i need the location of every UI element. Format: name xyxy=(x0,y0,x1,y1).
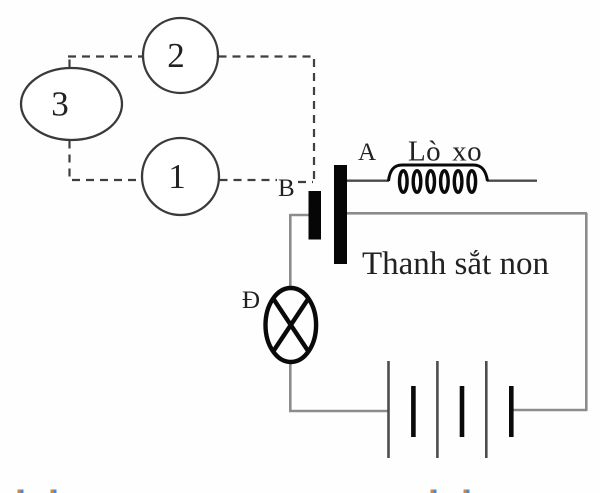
lamp D (circle with cross) xyxy=(266,288,317,362)
wire spring free end xyxy=(487,179,537,181)
cropped text fragment bottom-right 1 xyxy=(431,490,437,493)
dashed leader from circle 1 to node B xyxy=(220,180,314,182)
battery cell 2 long plate xyxy=(436,361,439,458)
svg-text:Thanh sắt non: Thanh sắt non xyxy=(362,246,549,282)
svg-text:B: B xyxy=(278,175,295,202)
svg-text:3: 3 xyxy=(51,85,69,124)
battery cell 1 long plate xyxy=(387,361,390,458)
svg-text:1: 1 xyxy=(168,157,186,196)
wire from contact bar B to lamp branch xyxy=(290,214,309,217)
battery cell 3 long plate xyxy=(485,361,488,458)
cropped text fragment bottom-left 1 xyxy=(18,490,24,493)
dashed leader from ellipse 3 to circle 2 xyxy=(68,56,142,68)
svg-text:Lò xo: Lò xo xyxy=(408,136,482,168)
battery cell 1 short plate xyxy=(411,386,416,437)
battery cell 3 short plate xyxy=(509,386,514,437)
wire right vertical xyxy=(585,213,588,411)
svg-text:2: 2 xyxy=(167,36,185,75)
wire iron bar to right vertical xyxy=(347,212,587,215)
cropped text fragment bottom-left 2 xyxy=(51,490,57,493)
spring (Lo xo) coil xyxy=(389,165,488,192)
wire iron bar to spring xyxy=(347,179,389,181)
indicator ellipse 3 xyxy=(21,68,122,140)
contact bar at node B xyxy=(309,191,322,240)
battery cell 2 short plate xyxy=(460,386,465,437)
svg-text:A: A xyxy=(358,139,376,166)
dashed leader from circle 2 to node B xyxy=(219,57,315,182)
dashed leader from ellipse 3 to circle 1 xyxy=(70,141,143,181)
svg-text:Đ: Đ xyxy=(242,287,260,314)
wire lamp to battery left plate xyxy=(289,410,388,413)
indicator circle 2 xyxy=(143,18,218,93)
wire battery right plate to right side xyxy=(511,409,587,412)
wire lamp top segment xyxy=(289,214,292,289)
indicator circle 1 xyxy=(142,138,219,215)
iron bar (Thanh sat non) xyxy=(334,165,347,264)
cropped text fragment bottom-right 2 xyxy=(464,490,470,493)
wire lamp bottom segment xyxy=(289,361,292,411)
